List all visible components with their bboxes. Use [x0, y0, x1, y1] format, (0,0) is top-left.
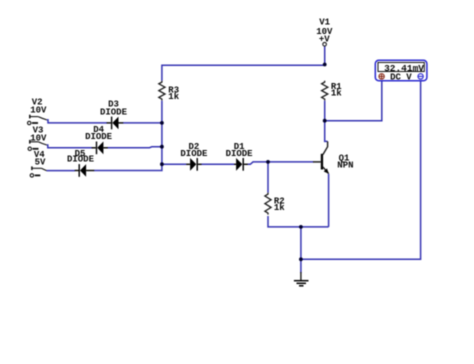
wire ground node down to ground symbol: [300, 259, 302, 273]
svg-text:1k: 1k: [168, 92, 179, 102]
wire D1 to base node with jog up: [248, 162, 268, 164]
wire R1 bottom lead to node B: [324, 101, 326, 121]
wire D2 to D1: [201, 163, 234, 165]
wire V2 to D3 cathode: [47, 120, 107, 123]
minus terminal: [418, 74, 423, 79]
svg-text:10V: 10V: [30, 106, 47, 116]
diode D3: [100, 99, 128, 129]
resistor R2: [265, 193, 285, 215]
wire top rail from R3 top to V1 node: [162, 65, 325, 81]
svg-text:DIODE: DIODE: [100, 108, 128, 118]
wire V1 terminal stub down to node: [324, 46, 326, 65]
wire Q1 emitter down to rail: [328, 174, 330, 227]
diode D5: [67, 149, 95, 177]
wire V4 to D5 cathode: [47, 170, 76, 172]
wire D3 anode to node at x=162: [123, 122, 162, 124]
voltage source V3: [28, 126, 47, 151]
voltage source V2: [28, 98, 48, 125]
node D3 row: [160, 121, 164, 125]
wire D5 anode to node at x=162: [94, 164, 162, 170]
svg-text:5V: 5V: [35, 158, 46, 168]
power terminal V1: [316, 18, 333, 46]
wire left bus vertical R3 bottom through three nodes: [161, 101, 163, 165]
ground: [294, 272, 309, 286]
wire base node to Q1 base pin: [268, 161, 314, 163]
resistor R1: [322, 81, 343, 101]
wire node B to voltmeter plus terminal: [325, 81, 382, 121]
svg-text:DIODE: DIODE: [67, 155, 95, 165]
transistor Q1: [313, 141, 354, 173]
node D5 / AND node: [160, 162, 164, 166]
svg-text:DIODE: DIODE: [226, 149, 254, 159]
node D4 row: [160, 145, 164, 149]
voltmeter U1: [375, 60, 427, 82]
wire V3 to D4 cathode: [47, 145, 92, 148]
diode D1: [226, 142, 254, 171]
node B (R1 bottom / collector / meter+): [323, 119, 327, 123]
node base / R2 top: [266, 160, 270, 164]
wire D4 anode to node at x=162: [107, 146, 161, 149]
voltage source V4: [30, 150, 46, 177]
svg-text:DIODE: DIODE: [85, 132, 113, 142]
node ground / meter- branch: [299, 257, 303, 261]
resistor R3: [159, 81, 180, 102]
wire base node down to R2 top: [267, 162, 269, 193]
diode D4: [85, 125, 113, 154]
wire voltmeter minus terminal down and left to ground node: [301, 81, 421, 259]
svg-text:DIODE: DIODE: [180, 149, 208, 159]
node V1-rail junction: [323, 63, 327, 67]
wire node B down to Q1 collector: [325, 121, 328, 142]
wire AND-node to D2: [162, 163, 187, 165]
svg-text:1k: 1k: [331, 89, 342, 99]
svg-text:NPN: NPN: [337, 160, 353, 170]
svg-text:DC V: DC V: [390, 73, 412, 83]
wire R2 bottom to emitter rail: [268, 216, 329, 227]
wire rail node down to ground node: [300, 227, 302, 259]
diode D2: [180, 142, 208, 171]
node emitter rail / ground branch: [299, 225, 303, 229]
plus terminal: [379, 74, 384, 79]
svg-text:1k: 1k: [274, 203, 285, 213]
